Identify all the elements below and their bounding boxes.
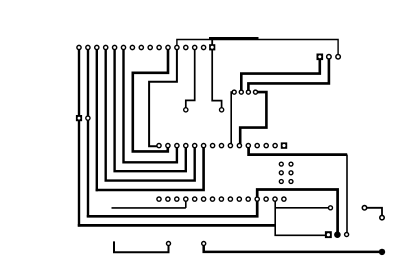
- wire netB top pad12 to row2 pad1: [149, 48, 177, 147]
- wire net2 long route to filled via: [87, 190, 338, 235]
- bottom bracket pads: [167, 242, 206, 246]
- wire net3 top col3 vertical: [96, 48, 98, 192]
- row3 pads y199.1: [157, 197, 286, 201]
- wire top pad14 to mid-left open pad: [186, 48, 195, 110]
- wire branch right to open pad: [275, 207, 330, 209]
- wire row3 pad14 down to bottom square: [275, 199, 327, 235]
- pads: top row of 15 through-hole pads: [77, 45, 206, 49]
- grid of 6 pads: [279, 162, 293, 183]
- wire row2 pad11 long route right: [249, 146, 348, 155]
- wire net5 top col5 to row2 pad4: [115, 48, 186, 172]
- bottom-right open pad: [345, 233, 349, 237]
- wire thin vertical down to bottom-right open pad: [346, 155, 348, 235]
- wire bottom bracket1: [114, 241, 169, 252]
- square pad top right: [317, 54, 324, 61]
- wire quad pad4 to row2 pad10: [240, 92, 266, 146]
- wire top square pad to mid-right open pad: [212, 48, 221, 110]
- wire net3 horizontal to row2 pad6: [96, 146, 204, 190]
- wire net6 top col6 to row2 pad3: [124, 48, 177, 163]
- filled via bottom right: [334, 231, 341, 238]
- square pad row2 right: [281, 142, 287, 148]
- square pad left mid: [76, 115, 82, 121]
- wire thick top segment: [209, 37, 259, 40]
- quad pad row: [232, 90, 257, 94]
- wire net4 top col4 to row2 pad5: [106, 48, 195, 181]
- row2 pads y145.6: [157, 144, 277, 148]
- top-right circle pads: [327, 55, 341, 60]
- filled via bottom end: [379, 249, 385, 255]
- wire thin y208 line: [112, 207, 186, 209]
- wire row3 pad4 stub down: [185, 199, 187, 208]
- open pad end of y208 branch: [329, 206, 333, 210]
- wire bottom bracket2 to filled via: [204, 244, 382, 252]
- right mini pads: [362, 206, 384, 220]
- square pad top row: [209, 44, 215, 50]
- wire quad pad1 down to row2 pad9: [231, 92, 234, 146]
- wire thin top bus to top-right pad: [177, 40, 338, 57]
- mid open-end pads: [184, 108, 224, 112]
- wire net1 bottom horizontal: [78, 224, 275, 227]
- wire net1 top col1 vertical: [78, 48, 80, 227]
- wire right mini link: [365, 208, 383, 218]
- wire quad pad3 to top-right circle: [248, 57, 329, 92]
- wire quad pad2 to top-right square: [241, 57, 319, 92]
- wire net2 top col2 vertical: [87, 48, 89, 218]
- wire stub square pad up to bus: [211, 40, 213, 48]
- circle pad left mid: [86, 116, 90, 120]
- bottom-right square pad: [325, 231, 332, 238]
- wire netA top pad11 to row2 pad2: [133, 48, 168, 152]
